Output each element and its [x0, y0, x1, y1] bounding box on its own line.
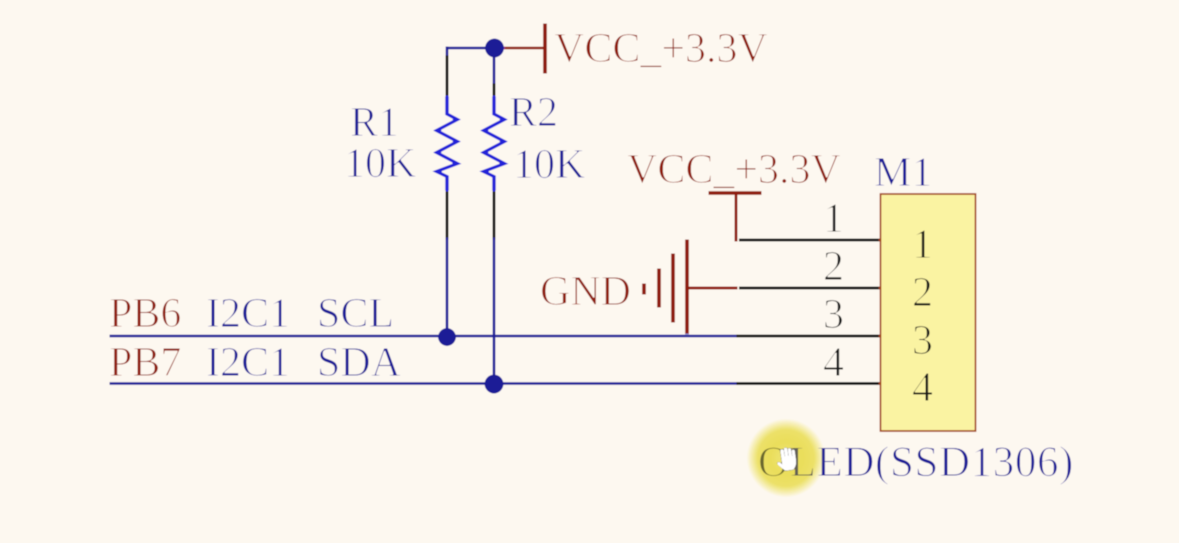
- svg-text:M1: M1: [874, 150, 932, 196]
- svg-text:GND: GND: [540, 269, 631, 315]
- hand cursor: [775, 446, 797, 472]
- pin 3 wire (black): [736, 334, 881, 338]
- pin 1 wire (black): [739, 238, 882, 242]
- svg-text:I2C1: I2C1: [206, 340, 290, 386]
- ground symbol stem to pin 2: [687, 286, 738, 290]
- resistor R2 body: [484, 96, 505, 191]
- svg-text:3: 3: [912, 318, 933, 364]
- svg-text:1: 1: [912, 222, 933, 268]
- resistor R2 pin bottom (black): [492, 191, 496, 240]
- wire R2 bottom vertical to SDA (navy): [492, 238, 496, 384]
- svg-text:2: 2: [912, 270, 933, 316]
- svg-text:R1: R1: [350, 100, 399, 146]
- svg-text:VCC_+3.3V: VCC_+3.3V: [627, 147, 841, 193]
- wire top red segment junction to VCC bar: [494, 46, 545, 50]
- resistor R1 body: [437, 96, 458, 191]
- pin 4 wire (black): [736, 382, 881, 386]
- svg-text:2: 2: [823, 244, 844, 290]
- ground symbol bar 1 (tallest): [685, 239, 690, 334]
- cursor highlight halo (behind text): [0, 0, 1, 1]
- resistor R1 pin top (black): [445, 55, 449, 97]
- resistor R1 pin bottom (black): [445, 191, 449, 240]
- svg-text:4: 4: [823, 340, 844, 386]
- svg-text:1: 1: [823, 196, 844, 242]
- power symbol VCC bar (top): [543, 23, 548, 74]
- svg-text:I2C1: I2C1: [206, 291, 290, 337]
- resistor R2 pin top (black): [492, 83, 496, 97]
- wire SCL horizontal (navy): [109, 334, 738, 338]
- power symbol VCC bar (at M1): [708, 191, 762, 196]
- junction dot R2/SDA: [484, 374, 504, 394]
- svg-text:PB6: PB6: [109, 291, 181, 337]
- wire top horizontal blue from R1 corner to junction: [447, 46, 494, 50]
- svg-text:4: 4: [912, 365, 933, 411]
- ground symbol bar 4 (smallest): [642, 283, 647, 295]
- wire R2 top vertical (navy): [492, 48, 496, 85]
- svg-text:VCC_+3.3V: VCC_+3.3V: [554, 26, 768, 72]
- wire R1 bottom vertical to SCL (navy): [445, 238, 449, 336]
- svg-text:R2: R2: [509, 90, 558, 136]
- ground symbol bar 3: [657, 268, 662, 308]
- wire R1 top corner vertical (navy): [445, 46, 449, 57]
- ground symbol bar 2: [671, 253, 676, 323]
- connector M1 body: [881, 194, 976, 431]
- svg-text:10K: 10K: [344, 141, 416, 187]
- power symbol VCC stem: [734, 193, 738, 242]
- svg-text:SDA: SDA: [317, 340, 402, 386]
- junction dot R1/SCL: [438, 328, 457, 347]
- pin 2 wire (black): [739, 286, 882, 290]
- svg-text:10K: 10K: [513, 142, 585, 188]
- cursor highlight halo (over text): [746, 418, 826, 498]
- wire SDA horizontal (navy): [109, 382, 738, 386]
- svg-text:SCL: SCL: [317, 291, 394, 337]
- svg-text:3: 3: [823, 292, 844, 338]
- junction dot top: [485, 38, 505, 58]
- svg-text:PB7: PB7: [109, 340, 181, 386]
